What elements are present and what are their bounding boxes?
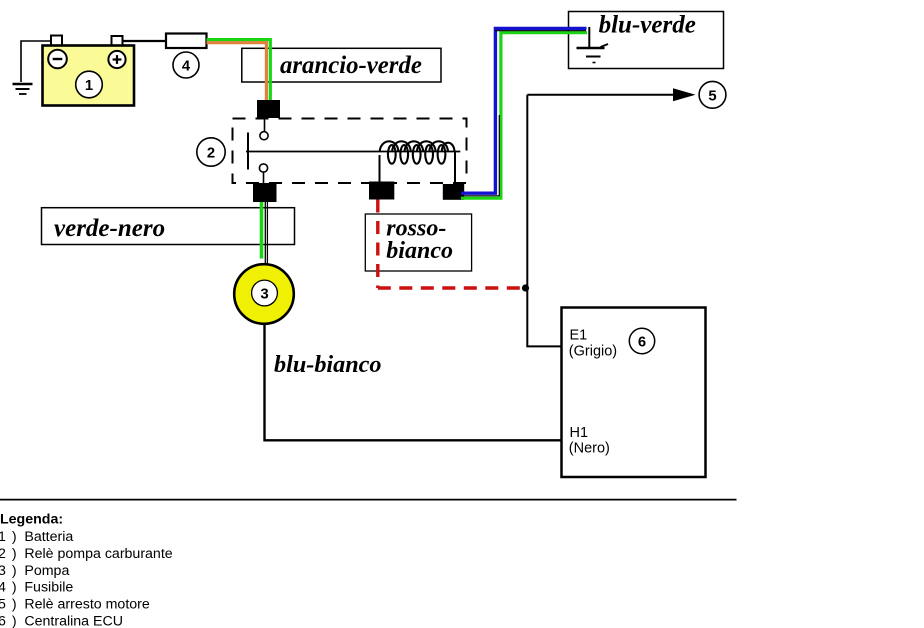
svg-text:bianco: bianco [386, 238, 453, 264]
svg-text:(Grigio): (Grigio) [569, 344, 617, 360]
callout circle 4 [173, 52, 199, 78]
legend rule [0, 499, 737, 501]
junction node [522, 284, 529, 291]
relay contact lead top [264, 118, 266, 132]
svg-text:3: 3 [260, 286, 268, 303]
svg-text:Legenda:: Legenda: [0, 512, 63, 528]
svg-text:Pompa: Pompa [24, 563, 69, 579]
ground (battery) [13, 84, 33, 94]
relay terminal block bottom-right (86) [443, 184, 464, 200]
label box arancio-verde [242, 48, 441, 82]
svg-text:5: 5 [708, 88, 716, 104]
svg-text:blu-bianco: blu-bianco [274, 351, 382, 378]
svg-text:2 ): 2 ) [0, 546, 18, 562]
svg-text:6 ): 6 ) [0, 613, 18, 628]
battery B1 terminal negative [51, 36, 62, 46]
relay contact lead bottom [263, 172, 265, 184]
svg-text:Centralina ECU: Centralina ECU [24, 613, 123, 628]
battery minus symbol [48, 50, 67, 69]
callout circle 5 [699, 81, 726, 108]
svg-text:1 ): 1 ) [0, 529, 18, 545]
label box verde-nero [42, 208, 295, 245]
wire to arrow 5 [527, 94, 676, 96]
svg-text:H1: H1 [570, 425, 589, 441]
callout circle 6 [629, 328, 654, 353]
svg-text:3 ): 3 ) [0, 563, 18, 579]
relay armature [247, 133, 249, 170]
svg-text:(Nero): (Nero) [569, 441, 610, 457]
wire blu-verde blue strand [461, 28, 587, 193]
wire blu-verde black divider [461, 115, 499, 196]
callout circle 1 [76, 71, 103, 98]
wire verde-nero green strand [260, 202, 264, 259]
relay coil lead right [454, 152, 456, 186]
label box blu-verde [569, 12, 724, 69]
relay coil lead left [379, 155, 381, 184]
svg-text:verde-nero: verde-nero [54, 215, 165, 242]
relay common line [246, 151, 460, 153]
svg-text:4 ): 4 ) [0, 580, 18, 596]
wire E1 / relay arresto (black vertical) [527, 95, 561, 347]
relay box 2 (dashed) [233, 119, 467, 184]
svg-text:1: 1 [85, 78, 93, 94]
ground (blu-verde) [577, 27, 609, 63]
relay contact bottom [259, 164, 267, 172]
relay terminal block top (30) [257, 100, 280, 118]
svg-text:6: 6 [638, 335, 646, 351]
wire battery positive to fuse [123, 40, 167, 42]
svg-text:arancio-verde: arancio-verde [280, 52, 422, 79]
svg-text:E1: E1 [570, 328, 588, 344]
ECU box 6 [562, 308, 706, 478]
svg-text:Relè pompa carburante: Relè pompa carburante [24, 546, 172, 562]
label box rosso-bianco [365, 214, 471, 271]
battery B1 terminal positive [112, 36, 123, 46]
wire battery negative to ground [21, 41, 52, 82]
battery 1 [43, 46, 135, 106]
svg-text:5 ): 5 ) [0, 597, 18, 613]
wire rosso-bianco (red dashed) [378, 200, 526, 289]
callout circle 2 [197, 138, 225, 166]
wire blu-verde green strand [461, 33, 587, 199]
svg-text:blu-verde: blu-verde [599, 12, 696, 39]
relay terminal block bottom-middle (85) [369, 182, 394, 200]
battery plus symbol [108, 51, 125, 68]
wire arancio-verde green strand [207, 40, 271, 101]
relay coil L [380, 141, 455, 163]
wire arancio-verde orange strand [207, 43, 267, 101]
svg-text:2: 2 [207, 146, 215, 162]
arrow head [673, 88, 696, 101]
svg-text:4: 4 [182, 59, 191, 75]
wire blu-bianco (pump to ECU H1) [265, 324, 562, 441]
wire verde-nero black strand [264, 202, 266, 266]
svg-text:Fusibile: Fusibile [24, 580, 73, 596]
relay terminal block bottom-left (87) [253, 183, 277, 202]
relay contact top [260, 132, 268, 140]
pump 3 [234, 264, 294, 324]
fuse F1 [166, 34, 207, 49]
svg-text:Relè arresto motore: Relè arresto motore [24, 597, 149, 613]
svg-text:Batteria: Batteria [24, 529, 73, 545]
